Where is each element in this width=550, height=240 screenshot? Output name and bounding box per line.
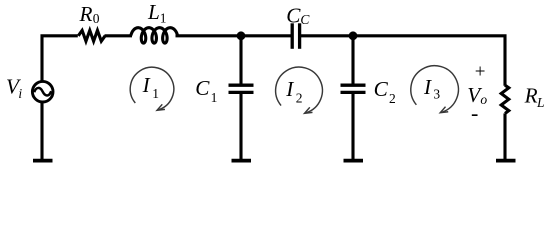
inductor L1 [131,28,178,43]
svg-text:I: I [423,75,432,99]
svg-text:1: 1 [160,10,167,25]
resistor R0 [78,30,105,41]
svg-text:-: - [471,101,478,126]
wire node 1 down to C1 [239,36,242,84]
ground bar under RL [496,159,516,163]
svg-text:I: I [142,73,151,97]
resistor RL [501,85,509,113]
wire inductor to C_C left plate [176,34,293,37]
wire C2 to ground [351,92,354,159]
mesh current loop I1 arc [130,67,174,109]
svg-text:3: 3 [433,87,440,102]
wire source bottom to ground [40,103,43,160]
capacitor C1 bottom plate [229,91,254,94]
wire RL to ground [503,113,506,159]
svg-text:R: R [79,2,93,26]
svg-text:2: 2 [389,91,396,106]
wire C_C right plate to top-right corner and down [300,36,505,86]
svg-text:1: 1 [152,86,159,101]
wire C1 to ground [239,92,242,159]
svg-text:L: L [147,0,160,24]
svg-text:L: L [536,95,545,110]
svg-text:+: + [475,62,486,83]
svg-text:i: i [18,86,22,101]
svg-text:I: I [285,77,294,101]
capacitor C2 bottom plate [341,91,366,94]
ground bar under C2 [344,159,364,163]
mesh current loop I3 arc [411,66,459,112]
ground bar under C1 [232,159,252,163]
voltage source Vi circle [32,81,53,102]
wire resistor to inductor [105,34,133,37]
mesh current loop I3 arrowhead [440,107,448,113]
mesh current loop I1 arrowhead [157,104,165,110]
junction node 2 [349,31,358,40]
svg-text:0: 0 [93,11,100,26]
svg-text:o: o [480,92,487,107]
svg-text:C: C [286,4,301,28]
svg-text:C: C [300,12,310,27]
ground bar under source [33,159,53,163]
capacitor CC right plate [298,23,301,49]
capacitor C1 top plate [229,84,254,87]
capacitor C2 top plate [341,84,366,87]
mesh current loop I2 arc [276,67,323,113]
svg-text:2: 2 [296,91,303,106]
svg-text:C: C [374,77,389,101]
sine wave inside source [34,88,51,96]
wire left vertical and top-left segment [42,36,78,81]
mesh current loop I2 arrowhead [305,107,313,113]
junction node 1 [237,31,246,40]
svg-text:C: C [195,76,210,100]
svg-text:R: R [524,83,538,107]
capacitor CC left plate [291,23,294,49]
svg-text:1: 1 [211,90,218,105]
wire node 2 down to C2 [351,36,354,84]
